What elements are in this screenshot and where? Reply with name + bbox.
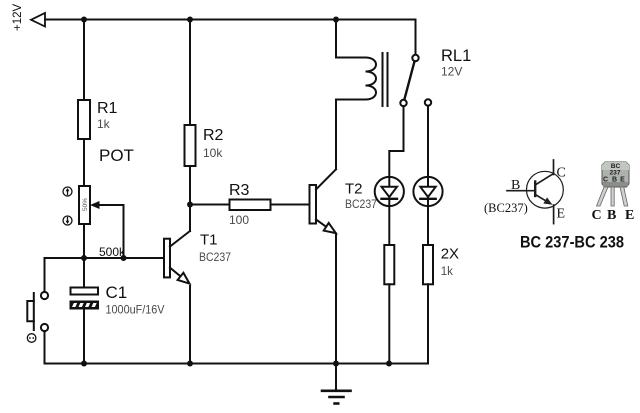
node bottom-T2 (333, 361, 339, 367)
resistor R1 (78, 100, 90, 139)
wire bottom rail (45, 363, 429, 365)
node R2-R3-T1 (187, 202, 193, 208)
wire top rail (45, 19, 416, 21)
resistor R3 (190, 204, 230, 206)
svg-text:E: E (625, 208, 634, 223)
svg-text:B: B (511, 178, 520, 193)
svg-text:10k: 10k (203, 146, 223, 160)
svg-text:12V: 12V (441, 65, 462, 79)
svg-text:50%: 50% (82, 198, 89, 211)
svg-text:C: C (603, 177, 608, 184)
transistor symbol U-ref circle (507, 160, 563, 224)
svg-text:E: E (620, 177, 625, 184)
svg-text:T1: T1 (200, 232, 218, 249)
svg-text:2X: 2X (441, 246, 459, 263)
wire to push button (44, 258, 46, 292)
transistor T1 BC237 (164, 239, 170, 278)
svg-text:C: C (592, 208, 602, 223)
svg-text:BC237: BC237 (345, 199, 377, 211)
svg-text:1k: 1k (441, 266, 453, 278)
ground (335, 364, 337, 391)
svg-text:1k: 1k (97, 117, 111, 131)
svg-text:B: B (607, 208, 616, 223)
svg-text:R2: R2 (203, 127, 224, 144)
svg-text:R3: R3 (229, 182, 250, 199)
node top-relay (333, 17, 339, 23)
node bottom-T1 (187, 361, 193, 367)
wire rail to R1 (83, 20, 85, 101)
resistor 1k (left of 2X) (384, 245, 394, 284)
svg-text:(BC237): (BC237) (484, 201, 528, 215)
relay RL1 coil (335, 20, 337, 58)
svg-text:237: 237 (609, 170, 620, 177)
pot wiper arrow (90, 201, 100, 209)
transistor T2 BC237 (310, 185, 317, 224)
+12V supply arrow (31, 13, 45, 27)
transistor package photo TO-92 (597, 162, 630, 206)
wire mid to C1 (83, 258, 85, 288)
diode LED1 (375, 177, 404, 206)
svg-text:BC 237-BC 238: BC 237-BC 238 (520, 234, 624, 252)
wire R1 to POT (83, 139, 85, 186)
svg-text:POT: POT (99, 146, 134, 165)
svg-text:1000uF/16V: 1000uF/16V (106, 303, 165, 317)
node top-R1 (81, 17, 87, 23)
svg-text:RL1: RL1 (441, 47, 471, 65)
node mid-wiper (121, 255, 127, 261)
svg-text:C: C (557, 166, 566, 181)
push button S1 (41, 292, 48, 299)
node bottom-C1 (81, 361, 87, 367)
svg-text:T2: T2 (345, 181, 363, 198)
relay switch (415, 20, 417, 55)
resistor 1k (right of 2X) (423, 245, 433, 284)
svg-text:+12V: +12V (12, 3, 24, 31)
push button actuate symbol (27, 334, 36, 343)
capacitor C1 (71, 288, 99, 295)
wire relay NC to LED1 (389, 106, 403, 187)
wire POT to mid rail (83, 224, 85, 258)
package legs (597, 187, 609, 206)
svg-text:BC237: BC237 (199, 252, 231, 264)
diode LED2 (413, 177, 442, 206)
svg-text:R1: R1 (97, 100, 118, 117)
pot up-arrow symbol (63, 187, 72, 196)
resistor R2 (189, 20, 191, 126)
svg-text:E: E (557, 207, 566, 222)
node top-R2 (187, 17, 193, 23)
wire button to bottom rail (44, 331, 46, 364)
wire relay NO to LED2 (427, 106, 429, 187)
wire wiper (99, 205, 124, 258)
wire C1 to bottom rail (83, 309, 85, 364)
node bottom-LED1 (386, 361, 392, 367)
pot down-arrow symbol (63, 216, 72, 225)
node mid-C1 (81, 255, 87, 261)
svg-text:B: B (612, 177, 617, 184)
svg-text:100: 100 (229, 213, 249, 227)
relay core (382, 53, 384, 106)
wire mid horizontal (45, 257, 165, 259)
svg-text:C1: C1 (106, 283, 128, 302)
